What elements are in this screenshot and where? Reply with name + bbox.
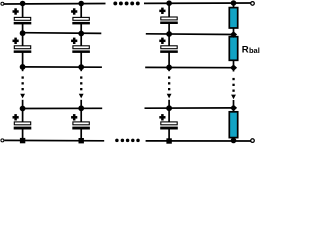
svg-text:Rbal: Rbal <box>242 45 260 56</box>
